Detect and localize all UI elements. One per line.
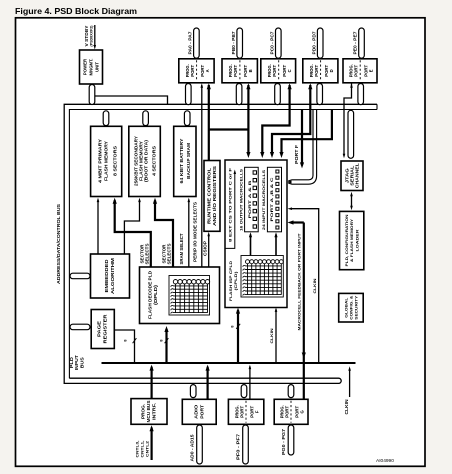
- wire DPLD csiop to runtime regs: [208, 234, 210, 267]
- port D top pin pill: [317, 28, 323, 58]
- svg-text:PORT: PORT: [272, 64, 277, 76]
- battery backup sram box: [174, 126, 196, 196]
- wire embedded algorithm to secondary flash: [124, 200, 139, 254]
- runtime control and i/o registers box: [204, 161, 220, 232]
- svg-text:(CPLD): (CPLD): [233, 271, 238, 291]
- svg-text:PORT A ,B & C: PORT A ,B & C: [270, 177, 274, 221]
- svg-text:SELECTS: SELECTS: [145, 243, 150, 264]
- main system bus channel (address/data/control): [64, 104, 377, 383]
- svg-text:ALGORITHM: ALGORITHM: [110, 257, 115, 294]
- wire DPLD sram select: [188, 200, 190, 268]
- svg-text:G: G: [299, 410, 304, 413]
- svg-text:B: B: [248, 69, 253, 72]
- svg-text:BACKUP SRAM: BACKUP SRAM: [186, 142, 191, 179]
- wire DPLD to port A (perip i/o mode selects): [201, 85, 203, 267]
- svg-text:ADDRESS/DATA/CONTROL BUS: ADDRESS/DATA/CONTROL BUS: [56, 204, 61, 284]
- wire adio to pld input bus: [207, 367, 209, 400]
- wire jtag to loader (bidirectional): [351, 195, 353, 208]
- clkin wire to CPLD input: [291, 209, 319, 363]
- jtag bus pill: [348, 110, 354, 158]
- bus branch channel to CPLD: [292, 110, 314, 180]
- pld input bus line: [102, 362, 356, 364]
- wire port E to jtag channel: [344, 84, 352, 156]
- wire port A to runtime control regs: [208, 85, 210, 161]
- wire port D to CPLD: [272, 85, 310, 153]
- svg-text:PAGE: PAGE: [97, 321, 102, 337]
- svg-text:PORT A & B: PORT A & B: [247, 180, 252, 218]
- port C bus pill (below): [275, 84, 281, 105]
- svg-text:C: C: [287, 69, 292, 72]
- svg-text:AD0 - AD15: AD0 - AD15: [190, 434, 195, 462]
- wire CPLD array to output macrocells: [250, 235, 252, 256]
- page register box: [91, 310, 114, 349]
- svg-text:SRAM SELECT: SRAM SELECT: [179, 233, 184, 265]
- pld configuration flash loader box: [340, 211, 364, 269]
- svg-text:8: 8: [160, 339, 164, 341]
- svg-text:CNTL2: CNTL2: [145, 440, 150, 457]
- adio top pill: [190, 385, 196, 398]
- power management unit bus pill: [89, 85, 95, 105]
- svg-text:PA0 - PA7: PA0 - PA7: [188, 31, 193, 55]
- adio port box: [182, 399, 216, 424]
- macrocell feedback wire: [303, 223, 305, 399]
- svg-text:(BOOT OR DATA): (BOOT OR DATA): [144, 139, 149, 182]
- wire CPLD array to input macrocells: [275, 235, 277, 256]
- svg-text:24 INPUT MACROCELLS: 24 INPUT MACROCELLS: [261, 169, 266, 230]
- port E box: [343, 59, 377, 83]
- svg-text:LOADER: LOADER: [354, 229, 359, 251]
- port C box: [261, 59, 296, 83]
- port D bus pill (below): [317, 84, 323, 105]
- wire bus to CPLD (port E side): [282, 110, 332, 153]
- svg-text:PORT: PORT: [314, 64, 319, 76]
- svg-text:CLKIN: CLKIN: [344, 399, 349, 414]
- svg-text:MCU BUS: MCU BUS: [146, 400, 151, 422]
- macrocell output wire and arrow: [225, 172, 235, 248]
- svg-text:PORT: PORT: [190, 64, 195, 76]
- svg-text:BUS: BUS: [79, 357, 84, 368]
- svg-text:Figure 4. PSD Block Diagram: Figure 4. PSD Block Diagram: [15, 7, 137, 16]
- port A box: [179, 59, 214, 83]
- port E bus pill (below): [358, 84, 364, 105]
- wire bus to port F: [301, 110, 303, 163]
- svg-text:POWER: POWER: [83, 58, 88, 75]
- secondary flash memory box: [129, 126, 161, 196]
- svg-text:PORT: PORT: [233, 64, 238, 76]
- port F bottom pill: [243, 425, 249, 464]
- arrow into CPLD from bus channel: [287, 180, 291, 183]
- svg-text:PERIP I/O MODE SELECTS: PERIP I/O MODE SELECTS: [193, 202, 198, 262]
- svg-text:16 OUTPUT MACROCELLS: 16 OUTPUT MACROCELLS: [238, 169, 243, 231]
- port F box: [228, 399, 263, 424]
- primary flash bus pill: [103, 111, 109, 126]
- wire page register to pld input bus: [114, 330, 134, 363]
- svg-text:8 EXT CS TO PORT C or F: 8 EXT CS TO PORT C or F: [227, 167, 232, 242]
- wire DPLD sector selects to secondary flash: [155, 200, 173, 267]
- bus width tick 8 (dpld input): [165, 338, 169, 343]
- port B top pin pill: [237, 28, 243, 58]
- svg-text:PORT: PORT: [354, 64, 359, 76]
- svg-text:CSIOP: CSIOP: [203, 241, 208, 256]
- svg-text:4 SECTORS: 4 SECTORS: [151, 146, 156, 176]
- svg-text:PORT F: PORT F: [294, 144, 299, 164]
- svg-text:SECURITY: SECURITY: [354, 295, 359, 319]
- global config and security box: [339, 293, 364, 322]
- svg-text:FLASH MEMORY: FLASH MEMORY: [103, 141, 108, 181]
- port B bus pill (below): [236, 84, 242, 105]
- svg-text:PORT: PORT: [239, 405, 244, 417]
- svg-text:(PSD8XXF2): (PSD8XXF2): [89, 25, 93, 47]
- svg-text:EMBEDDED: EMBEDDED: [104, 260, 109, 293]
- svg-text:CHANNEL: CHANNEL: [355, 163, 360, 189]
- port B box: [222, 59, 257, 83]
- wire clkin to CPLD array: [275, 310, 277, 364]
- bus width tick 8 (cpld input): [236, 324, 240, 329]
- wire pld input bus to CPLD: [237, 310, 239, 363]
- svg-text:PD0 - PD7: PD0 - PD7: [311, 31, 316, 55]
- svg-text:PB0 - PB7: PB0 - PB7: [231, 31, 236, 55]
- port F top pill: [241, 385, 247, 398]
- clkin pin wire: [349, 369, 351, 397]
- svg-text:AND I/O REGISTERS: AND I/O REGISTERS: [212, 166, 217, 226]
- bus pill to embedded algorithm: [70, 273, 90, 279]
- port A top pin pill: [194, 28, 200, 58]
- secondary flash bus pill: [143, 111, 149, 126]
- flash decode PLD (DPLD) box: [140, 267, 220, 324]
- port A bus pill (below): [186, 84, 192, 105]
- port G top pill: [288, 385, 294, 398]
- DPLD and-array graphic: [169, 276, 210, 316]
- wire DPLD sector selects to primary flash: [115, 200, 151, 267]
- svg-text:SELECTS: SELECTS: [166, 243, 171, 264]
- bus pill to page register: [70, 324, 90, 330]
- wire port A branch to CPLD: [209, 128, 249, 130]
- output macrocells port A and B box: [245, 167, 259, 232]
- embedded algorithm box: [91, 254, 130, 298]
- svg-text:8: 8: [231, 325, 235, 327]
- adio bottom pill: [197, 425, 203, 464]
- svg-text:INTRF.: INTRF.: [152, 403, 157, 420]
- input macrocells port A B C box: [267, 167, 281, 232]
- wire port C to CPLD: [262, 85, 289, 153]
- port G bottom pill: [288, 425, 294, 455]
- svg-text:V STDBY: V STDBY: [84, 25, 89, 46]
- svg-text:AI04990: AI04990: [376, 458, 394, 464]
- port E top pin pill: [359, 28, 365, 58]
- wire power mgmt to bus: [95, 96, 168, 104]
- svg-text:CLKIN: CLKIN: [312, 278, 317, 293]
- svg-text:ADIO: ADIO: [194, 404, 199, 419]
- svg-text:PF0 - PF7: PF0 - PF7: [236, 433, 241, 460]
- svg-text:PE0 - PE7: PE0 - PE7: [353, 31, 358, 55]
- svg-text:PG0 - PG7: PG0 - PG7: [281, 428, 286, 455]
- svg-text:FLASH DECODE PLD: FLASH DECODE PLD: [147, 271, 152, 319]
- wire mcu interface to pld input bus: [151, 367, 153, 399]
- svg-text:MNGMT.: MNGMT.: [89, 59, 94, 76]
- svg-text:CLKIN: CLKIN: [269, 328, 274, 343]
- svg-text:PROG.: PROG.: [141, 404, 146, 419]
- svg-text:PORT: PORT: [199, 404, 204, 419]
- bus width tick 8 (page register): [133, 338, 137, 343]
- svg-text:RUNTIME CONTROL: RUNTIME CONTROL: [207, 167, 212, 224]
- wire port B to CPLD: [247, 85, 249, 153]
- svg-text:MACROCELL FEEDBACK OR PORT INP: MACROCELL FEEDBACK OR PORT INPUT: [296, 233, 301, 331]
- svg-text:8: 8: [124, 339, 128, 341]
- CPLD and-array graphic: [241, 256, 283, 298]
- port G box: [274, 399, 308, 424]
- sram bus pill: [184, 111, 190, 126]
- wire embedded algorithm to primary flash: [97, 200, 99, 254]
- mcu bus interface box: [131, 399, 167, 425]
- cntl pins arrow: [151, 428, 153, 461]
- svg-text:4 MBIT PRIMARY: 4 MBIT PRIMARY: [98, 139, 103, 183]
- flash ISP CPLD outer box: [225, 160, 287, 308]
- svg-text:PORT: PORT: [284, 405, 289, 417]
- svg-text:A: A: [205, 69, 210, 72]
- svg-text:REGISTER: REGISTER: [103, 313, 108, 343]
- svg-text:64 KBIT BATTERY: 64 KBIT BATTERY: [179, 138, 184, 183]
- svg-text:(DPLD): (DPLD): [153, 284, 158, 305]
- wire port F to pld input bus: [249, 367, 251, 400]
- svg-text:D: D: [329, 69, 334, 72]
- jtag serial channel box: [341, 161, 363, 191]
- port C top pin pill: [276, 28, 282, 58]
- svg-text:8 SECTORS: 8 SECTORS: [113, 146, 118, 176]
- port D box: [303, 59, 338, 83]
- primary flash memory box: [91, 126, 122, 196]
- power management unit box: [80, 50, 103, 84]
- svg-text:PC0 - PC7: PC0 - PC7: [269, 31, 274, 55]
- svg-text:F: F: [254, 410, 259, 413]
- svg-text:UNIT: UNIT: [94, 62, 99, 72]
- wire pld input bus to DPLD: [165, 329, 167, 363]
- svg-text:E: E: [369, 69, 374, 72]
- VSTDBY pin wire: [94, 25, 96, 47]
